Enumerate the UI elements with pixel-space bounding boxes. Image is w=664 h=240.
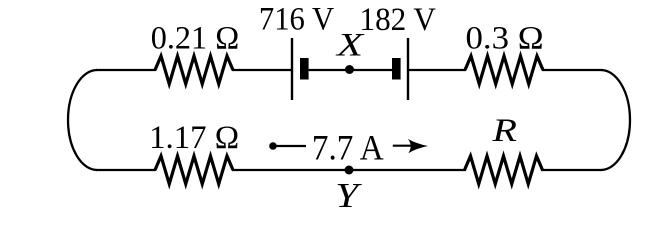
resistor R: [465, 156, 543, 184]
wire top between resistor and battery 716 V: [232, 69, 292, 71]
wire between batteries: [309, 69, 392, 71]
svg-text:0.3 Ω: 0.3 Ω: [466, 20, 544, 56]
wire top-right: [542, 69, 602, 71]
node Y (junction dot): [345, 166, 354, 175]
wire bottom-left: [96, 169, 156, 171]
wire top between battery 182 V and resistor 0.3 ohm: [408, 69, 466, 71]
current arrow head: [408, 139, 428, 153]
right loop end (curved wire): [601, 70, 630, 170]
svg-text:182 V: 182 V: [360, 2, 437, 38]
wire bottom-right: [541, 169, 602, 171]
wire top-left: [96, 69, 156, 71]
resistor 0.3 ohm: [465, 56, 543, 84]
battery 182 V : short thick plate: [392, 58, 401, 80]
current arrow shaft: [393, 145, 419, 147]
svg-text:7.7 A: 7.7 A: [312, 128, 384, 168]
svg-text:1.17 Ω: 1.17 Ω: [149, 120, 239, 156]
left loop end (curved wire): [68, 70, 97, 170]
wire bottom middle: [232, 169, 466, 171]
resistor 1.17 ohm: [155, 156, 233, 184]
node X (junction dot): [345, 65, 354, 74]
current annotation leader line: [275, 145, 306, 147]
svg-text:0.21 Ω: 0.21 Ω: [151, 20, 240, 56]
battery 716 V : short thick plate: [300, 58, 309, 80]
current annotation start dot: [269, 142, 277, 150]
svg-text:R: R: [491, 113, 517, 149]
resistor 0.21 ohm: [155, 56, 233, 84]
svg-text:716 V: 716 V: [259, 2, 334, 38]
battery 182 V : long plate: [407, 38, 409, 100]
svg-text:Y: Y: [335, 176, 362, 215]
battery 716 V : long plate: [291, 38, 293, 100]
